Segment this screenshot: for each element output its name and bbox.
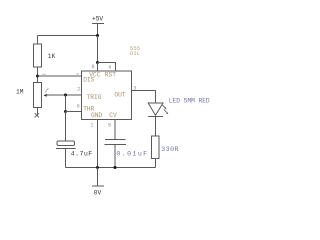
wire LED to R3 bbox=[155, 117, 157, 137]
+5V supply symbol bbox=[92, 24, 104, 36]
LED D1 triangle bbox=[148, 103, 163, 115]
resistor R3 330R bbox=[152, 136, 160, 159]
wire DIS pin 7 bbox=[38, 75, 82, 77]
wire pin 1 GND drop bbox=[97, 120, 99, 168]
op-amp/IC U1 555 box bbox=[82, 71, 132, 120]
small mark near DIS wire bbox=[42, 73, 46, 76]
svg-text:DIL: DIL bbox=[130, 50, 140, 57]
svg-text:2: 2 bbox=[77, 86, 80, 92]
wire top rail bbox=[38, 35, 98, 37]
wire VCC drop bbox=[97, 36, 99, 63]
svg-text:8: 8 bbox=[92, 64, 95, 70]
wire bottom rail bbox=[66, 167, 156, 169]
svg-text:+5V: +5V bbox=[92, 16, 103, 23]
wire R3 to rail bbox=[155, 159, 157, 168]
wiper arrow shaft bbox=[45, 88, 48, 92]
svg-text:7: 7 bbox=[76, 73, 79, 79]
svg-text:GND: GND bbox=[91, 112, 102, 119]
node junction THR bbox=[64, 110, 67, 113]
LED cathode bar bbox=[148, 116, 163, 118]
wire THR to C1 bbox=[65, 112, 67, 142]
svg-text:OUT: OUT bbox=[114, 92, 125, 99]
wire TRIG pin 2 (wiper to IC) bbox=[46, 94, 82, 96]
svg-text:4: 4 bbox=[108, 65, 111, 71]
wire pin 8 stub bbox=[97, 63, 99, 72]
potentiometer R2 1M bbox=[34, 83, 42, 116]
wire THR pin 6 bbox=[66, 111, 82, 113]
wire OUT pin 3 to LED bbox=[132, 91, 156, 104]
svg-text:TRIG: TRIG bbox=[87, 94, 102, 101]
wire TRIG-THR link bbox=[65, 95, 67, 112]
no-connect cross on pot bottom bbox=[35, 113, 39, 117]
svg-text:1K: 1K bbox=[48, 53, 56, 60]
svg-text:330R: 330R bbox=[161, 146, 179, 153]
svg-text:1M: 1M bbox=[16, 89, 24, 96]
LED emission arrow 1 bbox=[162, 105, 165, 108]
node junction ground bbox=[96, 166, 99, 169]
wiper arrowhead bbox=[43, 94, 46, 97]
svg-text:5: 5 bbox=[108, 122, 111, 128]
resistor R1 1K bbox=[34, 36, 42, 83]
node junction C2 rail bbox=[114, 166, 117, 169]
svg-text:6: 6 bbox=[77, 103, 80, 109]
svg-text:RST: RST bbox=[105, 72, 116, 79]
capacitor C2 0.01uF bbox=[105, 120, 127, 168]
svg-text:1: 1 bbox=[90, 122, 93, 128]
svg-text:LED 5MM RED: LED 5MM RED bbox=[169, 98, 210, 105]
wire pin 4 branch bbox=[98, 63, 116, 72]
node junction TRIG/THR bbox=[64, 94, 67, 97]
svg-text:CV: CV bbox=[109, 112, 117, 119]
ground symbol 0V bbox=[92, 168, 104, 187]
LED emission arrow 2 bbox=[164, 110, 167, 113]
node junction R1/pot/DIS bbox=[36, 75, 39, 78]
svg-text:0.01uF: 0.01uF bbox=[116, 151, 148, 158]
svg-text:0V: 0V bbox=[94, 189, 102, 196]
svg-text:DIS: DIS bbox=[83, 77, 94, 84]
capacitor C1 4.7uF electrolytic plate bbox=[56, 141, 76, 168]
node junction pin8/pin4 bbox=[96, 61, 99, 64]
node junction at +5V rail bbox=[96, 34, 99, 37]
svg-text:4.7uF: 4.7uF bbox=[71, 151, 93, 158]
